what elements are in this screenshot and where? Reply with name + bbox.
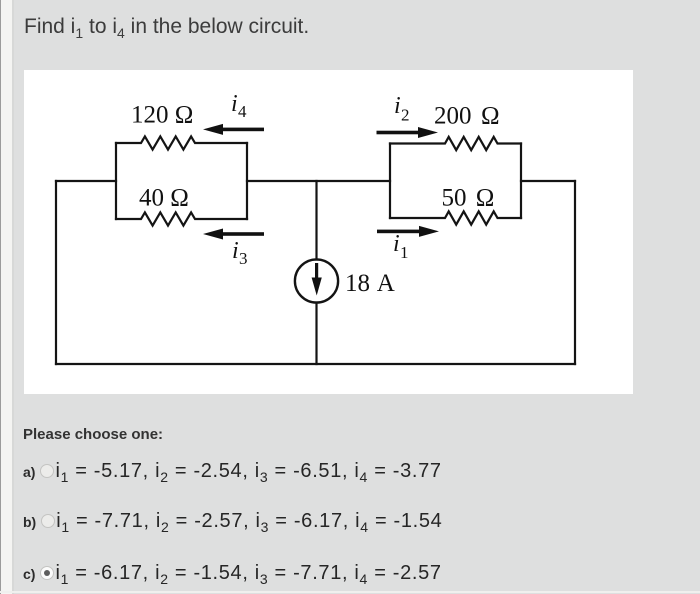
current source arrow (down) xyxy=(312,263,322,296)
circuit schematic xyxy=(24,70,633,394)
wire: right box right vertical xyxy=(520,144,522,219)
resistor R2 40 ohm zigzag (bottom of left box) xyxy=(116,212,247,225)
wire: outer left vertical xyxy=(55,181,57,364)
wire: current source bottom lead xyxy=(315,303,317,365)
left mid strip xyxy=(12,0,14,594)
current arrow i2 (right) xyxy=(377,127,439,138)
svg-text:120 Ω: 120 Ω xyxy=(131,102,193,129)
current source I1 18A circle xyxy=(295,259,338,302)
wire: outer bottom xyxy=(56,363,575,365)
question heading xyxy=(24,15,309,39)
svg-text:1: 1 xyxy=(400,243,409,262)
svg-text:i: i xyxy=(231,91,238,117)
wire: middle segment from left box to right box via node A xyxy=(247,180,390,182)
svg-text:3: 3 xyxy=(239,249,248,268)
wire: top-left segment from left rail to left parallel box xyxy=(56,180,116,182)
svg-text:18A: 18A xyxy=(345,270,395,297)
left dark edge xyxy=(0,0,1,594)
svg-text:200Ω: 200Ω xyxy=(434,103,500,130)
wire: left box right vertical xyxy=(246,143,248,219)
white circuit panel xyxy=(24,70,633,394)
svg-text:4: 4 xyxy=(238,102,247,121)
resistor R4 50 ohm zigzag (bottom of right box) xyxy=(390,211,521,224)
svg-text:40 Ω: 40 Ω xyxy=(139,185,189,212)
current arrow i3 (left) xyxy=(203,229,264,240)
wire: top-right segment from right box to right rail xyxy=(521,180,575,182)
svg-text:i: i xyxy=(394,93,401,119)
svg-text:50Ω: 50Ω xyxy=(442,185,495,212)
svg-text:i: i xyxy=(393,231,400,257)
resistor R3 200 ohm zigzag (top of right box) xyxy=(390,137,521,150)
wire: right box left vertical xyxy=(389,144,391,219)
wire: left box left vertical xyxy=(115,143,117,219)
option c row (selected) xyxy=(23,562,442,585)
current arrow i4 (left) xyxy=(203,124,264,135)
option a row xyxy=(23,460,442,483)
left light scrollbar strip xyxy=(1,0,12,594)
please choose one label xyxy=(23,426,163,443)
option b row xyxy=(23,510,442,533)
svg-text:2: 2 xyxy=(401,106,410,125)
bottom light strip xyxy=(0,591,700,593)
svg-text:i: i xyxy=(232,238,239,264)
wire: outer right vertical xyxy=(574,181,576,364)
current arrow i1 (right) xyxy=(377,226,439,237)
resistor R1 120 ohm zigzag (top of left box) xyxy=(116,136,247,149)
wire: current source top lead xyxy=(315,181,317,260)
